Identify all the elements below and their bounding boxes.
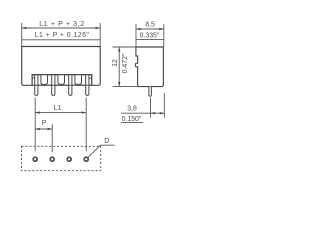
svg-text:0.335": 0.335" [140,32,160,39]
arrow bottom of 12 [118,82,120,87]
svg-text:L1: L1 [54,105,62,112]
arrow left of P [35,128,40,130]
hole 1 [33,157,37,161]
side housing outline [135,47,163,87]
arrow left of 8,5 [136,28,141,30]
dimension line 3,8 [121,112,164,114]
svg-text:8,5: 8,5 [145,21,155,28]
front housing outline [22,47,101,86]
svg-text:3,8: 3,8 [127,105,137,112]
hole 4 [84,157,88,161]
u-slot 2 between pins [58,75,65,85]
pin 1 front [35,75,38,96]
hole 2 [50,157,54,161]
svg-text:P: P [42,120,47,127]
arrow right of L1+P+3,2 [96,27,101,29]
inner shelf left of pin 1 [32,77,35,79]
projection line from pin 2 [51,124,53,152]
extension line right of dimension L1+P+3,2 [99,23,101,46]
svg-text:12: 12 [112,59,119,67]
pin side view [149,87,152,97]
extension line bottom of dimension 12 [113,86,138,88]
dimension line 12 (vertical) [118,47,120,87]
underline of 0.150" [121,121,143,123]
extension line top of dimension 12 [113,46,136,48]
svg-text:0.472": 0.472" [122,53,129,73]
svg-text:0.150": 0.150" [122,116,142,123]
svg-text:L1 + P + 0.126": L1 + P + 0.126" [35,32,90,39]
inch box bottom line for 0.335" [136,39,164,41]
inner shelf right of pin 4 [89,77,92,79]
arrow right of 8,5 [159,28,164,30]
extension line right for dimension 3,8 [163,93,165,118]
arrow left of L1 [35,111,40,113]
arrow left of L1+P+3,2 [22,27,27,29]
extension line from side pin for dimension 3,8 [150,98,152,118]
arrow right of P [48,128,53,130]
pin 2 front [52,75,55,96]
arrow left of 3,8 [151,112,156,114]
svg-text:D: D [104,138,109,145]
extension line right of dimension 8,5 [163,24,165,46]
dimension line L1 [35,112,86,114]
dimension line 8,5 [136,28,164,30]
u-slot 3 between pins [75,75,82,85]
pcb outline dashed rectangle [22,146,101,170]
extension line left of dimension 8,5 [135,24,137,47]
arrow right of L1 [82,111,87,113]
arrow right of 3,8 [160,112,165,114]
extension line left of dimension L1+P+3,2 [21,23,23,46]
pin 4 front [86,75,89,96]
inch box bottom line [22,39,101,41]
foot band bottom line crossing pins [32,84,92,86]
projection line from pin 1 [34,98,36,152]
u-slot 1 between pins [41,75,48,85]
hole 3 [67,157,71,161]
foot band below housing rim [32,75,92,86]
pin 3 front [69,75,72,96]
svg-text:L1 + P + 3,2: L1 + P + 3,2 [39,21,84,28]
projection line from pin 4 [85,98,87,152]
dimension line L1+P+3,2 [22,27,101,29]
housing rim line [32,74,92,76]
arrow top of 12 [118,47,120,52]
dimension line P [35,128,52,130]
leader line from hole 4 to label D [88,145,115,157]
